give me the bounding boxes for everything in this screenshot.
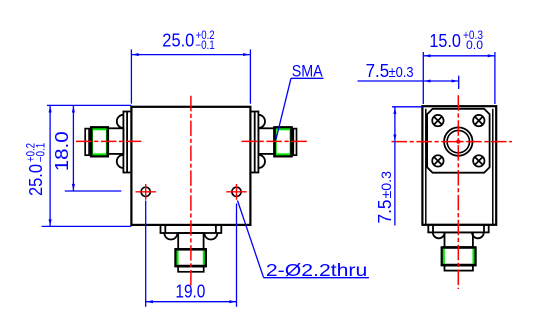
SMA connector face inner circle (447, 130, 469, 152)
right connector dielectric green lines (276, 128, 291, 155)
dimension 25.0 top: text (162, 30, 215, 52)
screw bottom-left (432, 155, 443, 166)
left connector end cap (85, 129, 89, 156)
dimension 18.0: rotated text (52, 131, 72, 171)
centerline cross hole left (136, 184, 156, 200)
screw bottom-right (473, 155, 484, 166)
svg-text:±0.3: ±0.3 (378, 171, 394, 199)
right connector end cap (293, 129, 296, 156)
dimension 18.0: lines (65, 105, 122, 191)
dimension 25.0 left: arrows (49, 106, 52, 226)
side view bottom connector neck (445, 232, 473, 247)
mounting hole right (232, 187, 241, 196)
dimension 19.0: extension lines (146, 201, 237, 307)
centerline cross hole right (226, 184, 246, 200)
svg-text:−0.1: −0.1 (195, 40, 215, 52)
dimension 7.5 vertical: lines (392, 107, 422, 226)
svg-text:−0.1: −0.1 (36, 143, 48, 163)
bottom connector end cap (178, 267, 204, 272)
body side wall lines (426, 109, 493, 225)
dimension 25.0 top: extension lines (131, 49, 250, 103)
svg-text:18.0: 18.0 (52, 131, 72, 171)
vertical centerline front view (190, 96, 192, 288)
svg-text:±0.3: ±0.3 (389, 65, 414, 81)
svg-text:25.0: 25.0 (162, 30, 194, 50)
mounting hole left (141, 187, 150, 196)
label SMA underline and leader (276, 78, 324, 139)
left connector dielectric green lines (92, 128, 107, 155)
side view bottom connector screw head left (433, 232, 445, 238)
left connector screw head bottom (117, 155, 124, 168)
dimension 7.5 horizontal: arrows (424, 79, 459, 82)
dimension 25.0 left: rotated text (25, 143, 47, 196)
side view bottom connector flange (428, 225, 488, 233)
left connector flange (123, 112, 131, 173)
bottom connector flange (161, 225, 222, 233)
right connector barrel (275, 127, 292, 156)
side view bottom connector screw head right (472, 232, 484, 238)
right connector flange (250, 112, 258, 173)
dimension 25.0 left: extension lines (42, 105, 132, 226)
dimension 7.5 vertical: rotated text (375, 171, 395, 224)
dimension 7.5 horizontal: text (366, 60, 414, 81)
svg-text:0.0: 0.0 (466, 40, 483, 52)
SMA center pin (456, 139, 460, 143)
left connector screw head top (117, 115, 124, 128)
bottom connector dielectric green lines (177, 251, 204, 265)
svg-text:7.5: 7.5 (366, 60, 390, 81)
SMA connector face outer circle (444, 127, 472, 155)
horizontal centerline left connector (76, 140, 142, 142)
svg-text:SMA: SMA (292, 61, 324, 80)
svg-text:25.0: 25.0 (26, 164, 46, 196)
bottom connector barrel (175, 249, 206, 266)
dimension 19.0: arrows (146, 300, 236, 303)
dimension 18.0: arrows (72, 106, 75, 191)
side view bottom connector end cap (445, 266, 473, 271)
dimension 15.0: arrows (424, 54, 495, 57)
body outline front view (131, 107, 250, 225)
horizontal centerline right connector (242, 140, 308, 142)
side view bottom connector barrel (442, 248, 476, 266)
dimension 7.5 horizontal: dimension line (358, 76, 459, 89)
screw top-right (473, 115, 484, 126)
screw top-left (432, 115, 443, 126)
left connector neck (108, 128, 124, 154)
svg-text:19.0: 19.0 (175, 282, 205, 302)
dimension 15.0: text (429, 30, 483, 52)
body outline side view (422, 106, 496, 225)
dimension 15.0: extension lines (423, 52, 495, 104)
dimension 25.0 top: arrows (132, 53, 250, 56)
side view vertical centerline (457, 95, 459, 289)
right connector neck (258, 128, 274, 154)
dimension 7.5 vertical: arrows (393, 107, 396, 141)
flange plate with chamfered corners (427, 109, 490, 173)
label 2-dia2.2thru underline and leader (238, 201, 369, 278)
bottom connector screw head right (204, 233, 217, 240)
left connector barrel (91, 127, 108, 156)
bottom connector screw head left (164, 233, 177, 240)
side view bottom connector dielectric green lines (444, 249, 474, 264)
right connector screw head top (258, 115, 265, 128)
right connector screw head bottom (258, 155, 265, 168)
svg-text:7.5: 7.5 (375, 200, 395, 224)
svg-text:15.0: 15.0 (429, 31, 461, 51)
side view horizontal centerline (392, 141, 513, 143)
bottom connector neck (178, 233, 203, 249)
